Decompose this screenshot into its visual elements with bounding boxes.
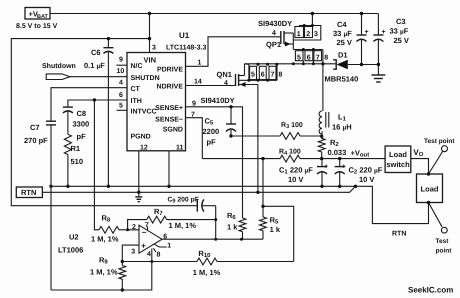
svg-text:16 µH: 16 µH xyxy=(332,123,352,132)
svg-text:5: 5 xyxy=(297,55,301,62)
svg-text:6: 6 xyxy=(261,72,265,79)
svg-text:10 V: 10 V xyxy=(359,175,374,184)
svg-text:1 M, 1%: 1 M, 1% xyxy=(90,268,118,277)
svg-text:C2 220 µF: C2 220 µF xyxy=(349,166,383,176)
svg-text:1 M, 1%: 1 M, 1% xyxy=(91,235,119,244)
svg-text:5: 5 xyxy=(119,103,123,110)
svg-text:LTC1148-3.3: LTC1148-3.3 xyxy=(166,45,206,52)
svg-text:−: − xyxy=(142,228,147,237)
svg-text:PDRIVE: PDRIVE xyxy=(157,67,183,74)
svg-text:8.5 V to 15 V: 8.5 V to 15 V xyxy=(16,23,58,30)
svg-text:C6: C6 xyxy=(91,48,101,57)
svg-text:pF: pF xyxy=(207,138,217,147)
svg-text:C4: C4 xyxy=(337,20,347,29)
svg-text:1 M, 1%: 1 M, 1% xyxy=(169,221,197,230)
svg-text:LT1006: LT1006 xyxy=(58,246,83,255)
svg-text:1 k: 1 k xyxy=(227,223,238,232)
svg-text:1: 1 xyxy=(297,31,301,38)
svg-text:Test point: Test point xyxy=(424,138,455,145)
svg-text:INTVCC: INTVCC xyxy=(131,109,157,116)
svg-text:1: 1 xyxy=(167,243,171,250)
svg-text:pF: pF xyxy=(77,132,87,141)
svg-text:7: 7 xyxy=(271,72,275,79)
svg-text:5: 5 xyxy=(251,72,255,79)
svg-text:D1: D1 xyxy=(338,51,348,60)
svg-text:6: 6 xyxy=(119,92,123,99)
svg-text:RTN: RTN xyxy=(21,188,36,197)
svg-text:12: 12 xyxy=(140,145,148,152)
svg-text:3: 3 xyxy=(152,45,156,52)
svg-text:switch: switch xyxy=(386,160,410,169)
svg-text:4: 4 xyxy=(147,251,151,258)
svg-text:7: 7 xyxy=(145,222,149,229)
svg-text:C9 200 pF: C9 200 pF xyxy=(168,197,199,205)
svg-text:MBR5140: MBR5140 xyxy=(325,75,359,84)
svg-text:C1 220 µF: C1 220 µF xyxy=(279,166,313,176)
svg-text:1 k: 1 k xyxy=(270,225,281,234)
svg-text:270 pF: 270 pF xyxy=(24,136,48,145)
svg-text:U2: U2 xyxy=(69,233,79,242)
svg-text:Load: Load xyxy=(421,185,439,194)
svg-text:8: 8 xyxy=(324,55,328,62)
svg-text:7: 7 xyxy=(191,112,195,119)
svg-text:10 V: 10 V xyxy=(288,175,303,184)
svg-text:SeekIC.com: SeekIC.com xyxy=(408,286,453,295)
svg-text:RTN: RTN xyxy=(392,231,406,238)
svg-text:6: 6 xyxy=(307,55,311,62)
svg-text:VIN: VIN xyxy=(144,56,157,65)
svg-text:510: 510 xyxy=(71,157,84,166)
svg-text:SENSE−: SENSE− xyxy=(155,117,183,124)
svg-text:8: 8 xyxy=(157,252,161,259)
svg-text:NDRIVE: NDRIVE xyxy=(157,84,184,91)
svg-text:R1: R1 xyxy=(71,144,81,153)
svg-text:Shutdown: Shutdown xyxy=(42,62,76,70)
svg-text:SGND: SGND xyxy=(163,127,183,134)
svg-text:Load: Load xyxy=(389,150,407,159)
svg-text:8: 8 xyxy=(278,72,282,79)
svg-text:1 M, 1%: 1 M, 1% xyxy=(193,268,221,277)
svg-text:1: 1 xyxy=(198,60,202,67)
svg-text:14: 14 xyxy=(194,79,202,86)
svg-text:25 V: 25 V xyxy=(394,36,409,45)
svg-text:0.1 µF: 0.1 µF xyxy=(84,61,105,70)
svg-text:9: 9 xyxy=(192,101,196,108)
svg-text:33 µF: 33 µF xyxy=(333,29,352,38)
svg-text:QN1: QN1 xyxy=(217,70,232,79)
svg-text:SHUTDN: SHUTDN xyxy=(131,75,160,82)
svg-text:C8: C8 xyxy=(77,109,87,118)
svg-text:25 V: 25 V xyxy=(337,38,352,47)
svg-text:10: 10 xyxy=(117,68,125,75)
svg-text:4: 4 xyxy=(119,80,123,87)
svg-text:3: 3 xyxy=(131,249,135,256)
svg-text:7: 7 xyxy=(316,55,320,62)
svg-text:2: 2 xyxy=(306,31,310,38)
svg-text:3300: 3300 xyxy=(73,120,90,129)
svg-text:U1: U1 xyxy=(179,31,190,40)
svg-text:Test: Test xyxy=(436,238,450,245)
svg-text:2: 2 xyxy=(132,224,136,231)
svg-text:point: point xyxy=(436,248,453,255)
svg-text:11: 11 xyxy=(176,145,184,152)
svg-text:2200: 2200 xyxy=(203,127,220,136)
svg-text:QP1: QP1 xyxy=(266,40,281,49)
svg-text:4: 4 xyxy=(272,30,276,37)
svg-text:PGND: PGND xyxy=(131,134,151,141)
svg-text:SI9410DY: SI9410DY xyxy=(201,96,235,105)
svg-text:0.033: 0.033 xyxy=(328,148,347,157)
svg-text:SI9430DY: SI9430DY xyxy=(258,19,292,28)
svg-text:9: 9 xyxy=(119,57,123,64)
svg-text:N/C: N/C xyxy=(131,62,143,70)
svg-text:3: 3 xyxy=(314,31,318,38)
svg-text:R3 100: R3 100 xyxy=(281,122,303,130)
svg-text:33 µF: 33 µF xyxy=(390,27,409,36)
svg-text:C7: C7 xyxy=(30,123,40,132)
svg-text:C3: C3 xyxy=(396,17,406,26)
svg-text:ITH: ITH xyxy=(131,98,142,105)
svg-text:BAT: BAT xyxy=(37,14,49,20)
svg-text:4: 4 xyxy=(224,80,228,87)
svg-text:SENSE+: SENSE+ xyxy=(155,105,183,112)
svg-text:CT: CT xyxy=(131,86,141,93)
svg-text:+: + xyxy=(141,242,146,251)
